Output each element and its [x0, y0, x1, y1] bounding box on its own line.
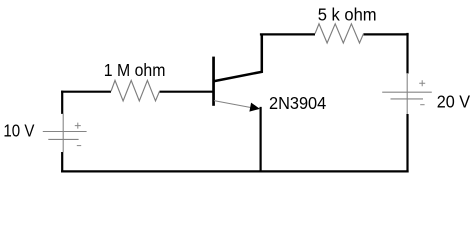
svg-text:2N3904: 2N3904 — [269, 93, 326, 113]
svg-text:5 k ohm: 5 k ohm — [318, 5, 377, 25]
svg-text:1 M ohm: 1 M ohm — [104, 60, 166, 80]
svg-text:20 V: 20 V — [437, 91, 470, 111]
svg-text:10 V: 10 V — [3, 121, 34, 141]
